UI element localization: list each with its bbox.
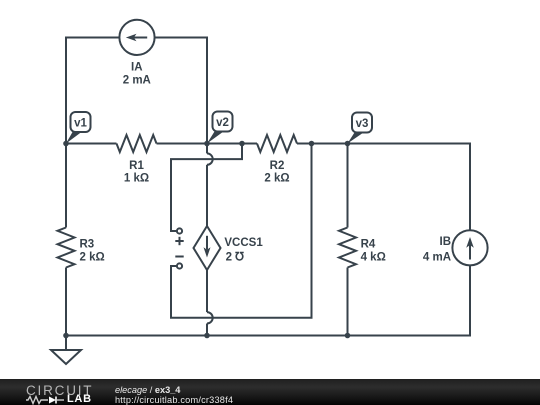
wire v2 to VCCS1 top (with hop)	[206, 144, 208, 154]
svg-text:VCCS1: VCCS1	[224, 237, 263, 249]
node v3	[348, 113, 373, 144]
wire rail v1 to R1	[66, 143, 117, 145]
footer title	[115, 385, 180, 395]
svg-text:4 mA: 4 mA	[423, 251, 451, 263]
logo squiggle	[26, 397, 48, 404]
svg-text:IB: IB	[440, 236, 452, 248]
resistor R4	[339, 228, 356, 268]
wire top loop right to v2	[155, 38, 207, 144]
wire v3 to R4	[347, 144, 349, 228]
footer url	[115, 395, 233, 405]
wire VCCS1 bottom (with hop)	[206, 270, 208, 312]
wire - control to rail dot	[171, 144, 312, 318]
CircuitLab logo	[26, 383, 93, 398]
wire R3 bottom lead	[65, 268, 67, 336]
minus sign	[175, 256, 183, 258]
svg-text:2 kΩ: 2 kΩ	[264, 172, 289, 184]
svg-text:v1: v1	[74, 118, 87, 130]
resistor R2	[257, 135, 297, 152]
svg-text:2 ℧: 2 ℧	[226, 251, 245, 264]
VCCS1 diamond	[194, 226, 221, 270]
svg-text:R3: R3	[80, 238, 95, 250]
VCCS1 minus terminal	[177, 263, 182, 268]
svg-text:IA: IA	[131, 62, 143, 74]
wire v1 up-left of top loop	[66, 38, 119, 144]
svg-text:R2: R2	[270, 160, 285, 172]
VCCS1 plus terminal	[177, 228, 182, 233]
footer bar	[0, 379, 540, 405]
wire rail R2 to right edge	[297, 144, 470, 231]
resistor R3	[58, 228, 75, 268]
svg-text:2 kΩ: 2 kΩ	[80, 251, 105, 263]
current source IA	[119, 20, 154, 55]
svg-text:4 kΩ: 4 kΩ	[361, 251, 386, 263]
resistor R1	[117, 135, 157, 152]
node v1	[66, 112, 91, 144]
plus sign	[175, 240, 183, 242]
wire rail R1 to R2	[157, 143, 258, 145]
current source IB	[452, 230, 487, 265]
svg-text:1 kΩ: 1 kΩ	[124, 172, 149, 184]
svg-text:R4: R4	[361, 238, 376, 250]
ground	[65, 336, 67, 351]
svg-text:R1: R1	[129, 160, 144, 172]
wire + control from rail dot	[171, 144, 242, 232]
wire R3 top lead	[65, 144, 67, 228]
wire IB bottom lead	[66, 265, 470, 335]
svg-text:v3: v3	[356, 118, 369, 130]
wire R4 bottom lead	[347, 268, 349, 336]
svg-text:v2: v2	[216, 117, 229, 129]
svg-text:2 mA: 2 mA	[123, 75, 151, 87]
node v2	[207, 112, 233, 144]
